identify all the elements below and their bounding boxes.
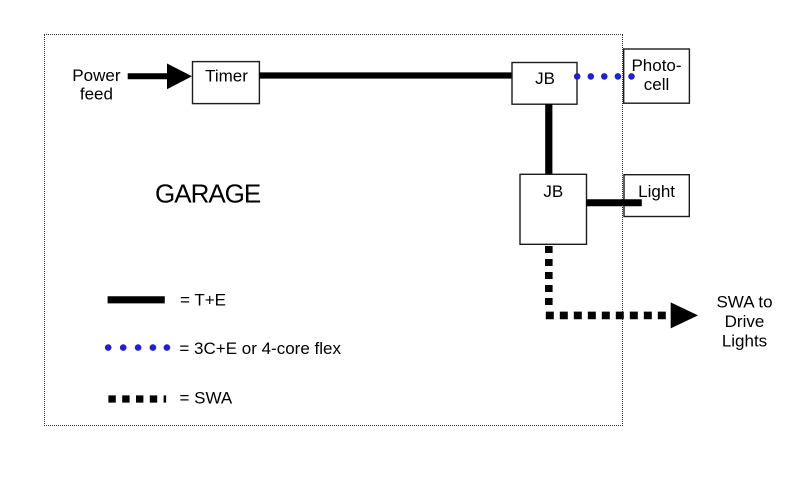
junction box JB2 (520, 174, 587, 244)
wire: power feed arrow shaft (128, 73, 172, 79)
wire: SWA horizontal run to drive (546, 312, 666, 320)
arrowhead: SWA to drive lights (671, 302, 698, 328)
legend sample: SWA dashed line (108, 395, 166, 402)
svg-text:SWA to: SWA to (716, 292, 772, 311)
svg-text:= 3C+E or 4-core flex: = 3C+E or 4-core flex (179, 339, 341, 358)
Light box (624, 175, 689, 217)
svg-text:= SWA: = SWA (180, 389, 233, 408)
svg-text:Lights: Lights (722, 332, 767, 351)
svg-text:Power: Power (72, 66, 121, 85)
wire: JB2 to Light (T+E) (587, 199, 642, 206)
Timer box (193, 62, 260, 104)
svg-text:GARAGE: GARAGE (155, 178, 261, 208)
arrowhead into Timer (167, 64, 192, 90)
legend sample: T+E solid line (108, 296, 165, 303)
wire: SWA vertical run below JB2 (545, 246, 553, 305)
svg-text:cell: cell (644, 75, 670, 94)
svg-text:Light: Light (638, 182, 675, 201)
garage boundary (44, 35, 623, 426)
svg-text:JB: JB (543, 182, 563, 201)
svg-text:Drive: Drive (725, 312, 765, 331)
svg-text:Timer: Timer (205, 66, 248, 85)
wire: Timer to JB (T+E) (259, 72, 512, 78)
svg-text:= T+E: = T+E (180, 290, 226, 309)
svg-text:Photo-: Photo- (631, 56, 681, 75)
junction box JB1 (512, 63, 577, 105)
Photo-cell box (624, 49, 690, 103)
svg-text:feed: feed (80, 85, 113, 104)
legend sample: 3C+E flex blue dots (105, 344, 170, 351)
wire: JB1 down to JB2 (T+E) (545, 104, 552, 175)
svg-text:JB: JB (535, 69, 555, 88)
wire: JB to Photo-cell (blue flex, dotted) (574, 73, 635, 80)
